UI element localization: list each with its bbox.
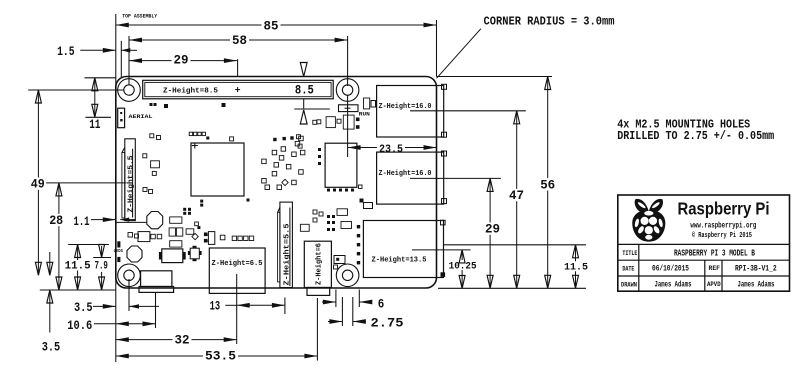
svg-text:© Raspberry Pi 2015: © Raspberry Pi 2015 bbox=[692, 231, 752, 240]
svg-text:13: 13 bbox=[210, 298, 221, 313]
svg-text:58: 58 bbox=[232, 33, 247, 48]
dimension 11.5 right bbox=[562, 245, 590, 288]
svg-text:85: 85 bbox=[264, 18, 279, 33]
svg-text:LEDS: LEDS bbox=[114, 248, 124, 254]
logo copyright bbox=[692, 231, 752, 240]
svg-text:Z-Height=16.0: Z-Height=16.0 bbox=[379, 103, 432, 111]
WiFi module U2 bbox=[325, 143, 357, 187]
dimension 23.5 bbox=[348, 95, 437, 157]
dimension 10.25 bbox=[449, 250, 477, 289]
GPIO header J8 Z-Height=8.5 bbox=[143, 80, 334, 99]
corner radius callout bbox=[437, 15, 615, 79]
dimension 47 bbox=[507, 111, 526, 288]
svg-text:1.5: 1.5 bbox=[57, 44, 75, 59]
svg-text:11: 11 bbox=[89, 117, 100, 132]
svg-text:10.6: 10.6 bbox=[67, 318, 92, 333]
crystal oscillator X1 bbox=[116, 212, 163, 229]
extension line hdmi center bbox=[236, 274, 238, 344]
audio jack Z-Height=6 bbox=[304, 241, 331, 295]
svg-text:1.1: 1.1 bbox=[74, 214, 90, 229]
dimension 49 bbox=[29, 90, 47, 275]
svg-text:29: 29 bbox=[485, 222, 500, 237]
logo wordmark Raspberry Pi bbox=[678, 198, 770, 218]
LED D3 PWR bbox=[117, 257, 120, 262]
reference line eth leds bbox=[444, 244, 587, 246]
svg-text:RPI-3B-V1_2: RPI-3B-V1_2 bbox=[735, 265, 777, 274]
extension line csi center bbox=[284, 298, 286, 315]
svg-text:11.5: 11.5 bbox=[564, 262, 588, 274]
svg-text:7.9: 7.9 bbox=[94, 261, 108, 273]
svg-text:TITLE: TITLE bbox=[622, 250, 637, 257]
title block row DRAWN bbox=[621, 281, 775, 290]
extension line right edge top bbox=[436, 20, 438, 77]
DSI display connector Z-Height=5.5 bbox=[122, 139, 135, 221]
svg-text:www.raspberrypi.org: www.raspberrypi.org bbox=[690, 222, 756, 231]
svg-text:53.5: 53.5 bbox=[205, 349, 236, 364]
reference line USB2 center bbox=[410, 177, 501, 179]
svg-text:DRILLED TO 2.75 +/- 0.05mm: DRILLED TO 2.75 +/- 0.05mm bbox=[617, 129, 774, 143]
dimension 11.5 left bbox=[63, 245, 93, 291]
extension line left edge bbox=[115, 14, 117, 362]
svg-text:James Adams: James Adams bbox=[655, 281, 692, 290]
mounting hole bottom-left bbox=[118, 264, 141, 287]
svg-text:06/10/2015: 06/10/2015 bbox=[652, 265, 689, 274]
dimension 11 aerial bbox=[85, 78, 111, 132]
USB port lower Z-Height=16.0 bbox=[377, 151, 447, 204]
micro-USB power connector bbox=[139, 271, 174, 293]
mounting hole bottom-right bbox=[336, 264, 359, 287]
dimension 28 bbox=[47, 183, 65, 290]
LED D2 ACT bbox=[117, 241, 120, 247]
svg-text:3.5: 3.5 bbox=[42, 339, 61, 354]
reference line USB1 center bbox=[410, 110, 526, 112]
svg-text:RUN: RUN bbox=[359, 112, 370, 118]
extension line top edge left bbox=[85, 77, 116, 79]
dimension 3.5 vertical left bbox=[42, 252, 61, 354]
svg-text:REF: REF bbox=[709, 265, 721, 272]
dimension 7.9 bbox=[94, 245, 109, 291]
small SMD components bbox=[128, 98, 376, 269]
svg-text:Z-Height=5.5: Z-Height=5.5 bbox=[283, 224, 291, 286]
USB port upper Z-Height=16.0 bbox=[377, 84, 447, 137]
svg-text:Z-Height=6: Z-Height=6 bbox=[316, 243, 324, 285]
dimension 1.5 bbox=[57, 44, 137, 59]
svg-text:RASPBERRY PI 3 MODEL B: RASPBERRY PI 3 MODEL B bbox=[674, 249, 755, 259]
dimension 8.5 gpio bbox=[293, 62, 330, 124]
svg-text:2.75: 2.75 bbox=[371, 315, 404, 330]
PCB board outline 85x56 rounded corners bbox=[116, 77, 437, 289]
svg-text:TOP ASSEMBLY: TOP ASSEMBLY bbox=[122, 13, 158, 20]
dimension 3.5 bottom bbox=[74, 300, 159, 315]
reference line eth center bbox=[412, 249, 471, 251]
svg-text:DRAWN: DRAWN bbox=[621, 281, 637, 288]
dimension 58 bbox=[129, 33, 348, 48]
svg-text:56: 56 bbox=[540, 177, 555, 192]
svg-text:29: 29 bbox=[174, 52, 189, 67]
svg-text:Z-Height=8.5: Z-Height=8.5 bbox=[163, 87, 218, 95]
dimension 1.1 bbox=[74, 214, 136, 229]
svg-text:Z-Height=16.0: Z-Height=16.0 bbox=[379, 170, 432, 178]
svg-text:8.5: 8.5 bbox=[295, 84, 314, 98]
hole pad ext lines 6 bbox=[336, 290, 359, 308]
extension line audio center bbox=[316, 298, 318, 361]
title block row DATE bbox=[622, 265, 776, 274]
SoC BCM2837 U1 bbox=[191, 143, 244, 197]
CSI camera connector Z-Height=5.5 bbox=[278, 202, 293, 287]
extension line top edge right bbox=[437, 76, 553, 78]
reference line LED1 bbox=[68, 244, 109, 246]
extension line 1.5 feature bbox=[120, 41, 122, 77]
svg-text:32: 32 bbox=[175, 333, 190, 348]
hole ext lines 2.75 bbox=[342, 297, 352, 326]
Raspberry Pi logo bbox=[632, 199, 665, 242]
svg-text:Raspberry Pi: Raspberry Pi bbox=[678, 198, 770, 218]
extension line usbpwr center bbox=[155, 293, 157, 328]
reference line DSI feature bbox=[46, 182, 127, 184]
dimension 29 top bbox=[129, 52, 237, 67]
component octagon D1 bbox=[127, 246, 142, 262]
label LEDS bbox=[114, 248, 124, 254]
extension line bottom edge right bbox=[438, 287, 586, 289]
HDMI connector Z-Height=6.5 bbox=[209, 248, 265, 293]
Ethernet jack Z-Height=13.5 bbox=[363, 220, 445, 277]
antenna AERIAL bbox=[118, 108, 153, 128]
svg-text:CORNER RADIUS = 3.0mm: CORNER RADIUS = 3.0mm bbox=[484, 15, 615, 29]
svg-text:49: 49 bbox=[31, 177, 45, 192]
note mounting holes bbox=[617, 117, 774, 142]
extension line GPIO center bbox=[237, 59, 239, 76]
dimension 56 bbox=[538, 77, 557, 289]
title block row TITLE bbox=[622, 249, 755, 259]
dimension 29 right bbox=[483, 178, 502, 288]
extension line hole col2 top bbox=[347, 36, 349, 86]
extension line hole col1 bottom bbox=[128, 279, 130, 311]
extension line hole col1 top bbox=[128, 36, 130, 85]
svg-text:Z-Height=5.5: Z-Height=5.5 bbox=[127, 156, 135, 213]
reference line LED2 bbox=[93, 257, 111, 259]
dimension 32 bbox=[116, 333, 237, 348]
label TOP ASSEMBLY bbox=[122, 13, 158, 20]
svg-text:28: 28 bbox=[49, 213, 63, 228]
svg-text:Z-Height=13.5: Z-Height=13.5 bbox=[372, 256, 427, 264]
svg-text:3.5: 3.5 bbox=[74, 300, 93, 315]
extension line bottom edge left bbox=[40, 289, 116, 291]
RUN header bbox=[339, 105, 370, 118]
dimension 13 bbox=[210, 298, 285, 313]
svg-text:11.5: 11.5 bbox=[65, 261, 91, 273]
dimension 53.5 bbox=[116, 349, 318, 364]
extension line hole row1 left bbox=[28, 89, 124, 91]
dimension 85 bbox=[116, 18, 437, 33]
svg-text:23.5: 23.5 bbox=[379, 144, 403, 156]
dimension 10.6 bbox=[67, 318, 155, 333]
logo url bbox=[690, 222, 756, 231]
title block frame bbox=[618, 195, 790, 291]
svg-text:47: 47 bbox=[509, 188, 524, 203]
svg-text:AERIAL: AERIAL bbox=[129, 113, 154, 120]
svg-text:DATE: DATE bbox=[622, 266, 634, 273]
svg-text:APVD: APVD bbox=[707, 281, 721, 288]
dimension 2.75 bbox=[328, 315, 404, 330]
svg-text:6: 6 bbox=[378, 296, 385, 311]
mounting hole top-left bbox=[118, 79, 141, 102]
dimension 6 bbox=[322, 296, 384, 311]
mounting hole top-right bbox=[336, 79, 359, 102]
svg-text:James Adams: James Adams bbox=[738, 281, 775, 290]
svg-text:Z-Height=6.5: Z-Height=6.5 bbox=[212, 260, 263, 268]
svg-text:10.25: 10.25 bbox=[449, 262, 477, 273]
